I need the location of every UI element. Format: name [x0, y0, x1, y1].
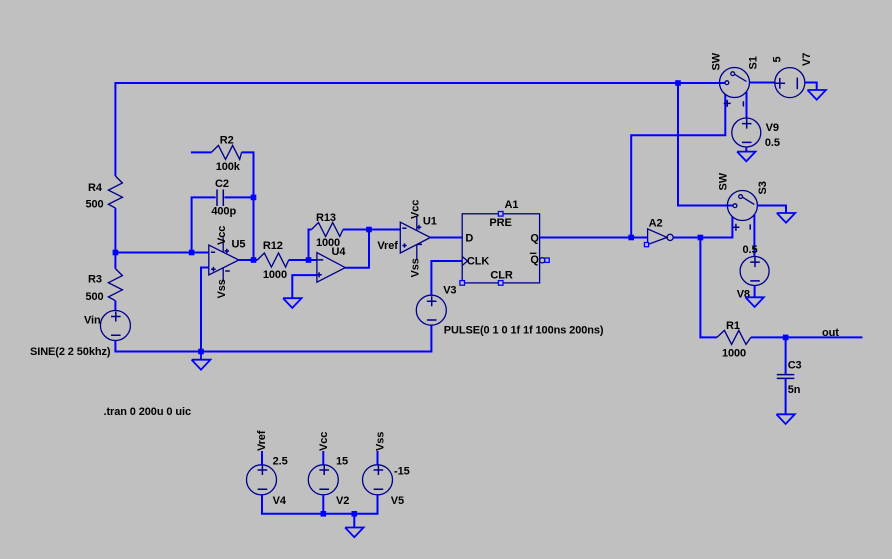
svg-text:SW: SW: [711, 52, 723, 70]
svg-text:0.5: 0.5: [765, 137, 780, 149]
ground V8: [745, 297, 763, 307]
svg-text:V4: V4: [273, 495, 287, 507]
ground supply rail: [345, 528, 363, 538]
voltage source V3: [416, 295, 446, 325]
svg-text:V3: V3: [443, 284, 456, 296]
svg-text:Vss: Vss: [216, 279, 228, 298]
voltage source V2: [308, 465, 338, 495]
pin A2 com square: [644, 243, 648, 247]
svg-text:500: 500: [86, 291, 104, 303]
svg-text:Vref: Vref: [256, 430, 268, 451]
pin Qbar square: [545, 258, 549, 262]
op-amp U4: [317, 253, 345, 283]
svg-text:.tran 0 200u 0 uic: .tran 0 200u 0 uic: [104, 406, 191, 418]
svg-text:A1: A1: [505, 199, 519, 211]
svg-text:Vref: Vref: [377, 240, 398, 252]
voltage source V4: [247, 465, 277, 495]
node out junction: [783, 335, 789, 341]
node Q junction: [628, 235, 634, 241]
node U4 minus junction: [306, 257, 312, 263]
svg-text:U5: U5: [232, 238, 246, 250]
wire U5 plus to ground rail: [201, 268, 209, 352]
resistor R1: [717, 330, 751, 344]
wire R13 feedback left: [309, 230, 312, 261]
wire V3 to CLK: [431, 261, 462, 296]
wire S1 to V7: [750, 82, 775, 84]
svg-text:V7: V7: [801, 53, 813, 66]
pin clock wedge: [462, 257, 467, 266]
node bottom rail ground junction: [198, 349, 204, 355]
node C2 right junction: [251, 195, 257, 201]
svg-text:S3: S3: [757, 181, 769, 194]
wire S3 minus control to V8: [753, 215, 755, 257]
wire ground stub: [353, 514, 355, 528]
wire R1 to out node: [751, 336, 863, 338]
svg-text:V5: V5: [391, 495, 404, 507]
voltage source V5: [363, 465, 393, 495]
svg-text:V8: V8: [737, 289, 750, 301]
svg-text:Vss: Vss: [410, 258, 422, 277]
resistor R13: [312, 223, 344, 237]
svg-text:1000: 1000: [263, 269, 287, 281]
svg-text:Vss: Vss: [375, 432, 387, 451]
svg-text:R4: R4: [88, 182, 103, 194]
svg-text:R1: R1: [726, 320, 740, 332]
wire supply bottom rail: [262, 495, 378, 514]
svg-text:V9: V9: [766, 122, 779, 134]
svg-text:out: out: [822, 327, 839, 339]
wire R4 to R3: [114, 208, 116, 269]
wire junction to U5 minus: [115, 252, 208, 254]
pin PRE square: [498, 212, 503, 217]
switch S1: [720, 68, 750, 98]
svg-text:CLR: CLR: [490, 269, 512, 281]
svg-text:5n: 5n: [788, 384, 801, 396]
switch S3: [727, 191, 757, 221]
ground U4 plus: [283, 298, 301, 308]
svg-text:R12: R12: [263, 240, 283, 252]
svg-text:U4: U4: [332, 246, 347, 258]
svg-text:Vcc: Vcc: [410, 200, 422, 219]
wire S3 left drop: [678, 83, 733, 206]
wire R12 to U4 minus: [289, 259, 317, 261]
pin corner square: [460, 281, 465, 286]
ground C3: [776, 414, 794, 424]
ground bottom rail: [192, 352, 211, 370]
wire S3 right to ground: [757, 206, 786, 214]
wire R13 right to junction: [343, 229, 400, 231]
svg-text:15: 15: [336, 455, 348, 467]
resistor R12: [257, 253, 288, 267]
svg-text:SW: SW: [718, 172, 730, 190]
node U5 output junction: [251, 257, 257, 263]
wire V2 stub: [322, 495, 324, 514]
svg-text:500: 500: [86, 199, 104, 211]
wire A2 output: [673, 217, 732, 238]
voltage source V7: [775, 68, 805, 98]
inverter A2: [648, 229, 667, 245]
node U4 output junction: [366, 227, 372, 233]
wire S1 minus control to V9: [746, 92, 748, 118]
node C2 left junction: [189, 250, 195, 256]
svg-text:CLK: CLK: [467, 255, 489, 267]
node A2 output junction: [698, 235, 704, 241]
wire U1 output to flip-flop D: [430, 237, 462, 239]
wire top rail: [115, 83, 725, 176]
svg-text:Q: Q: [530, 254, 539, 266]
wire Vin to bottom rail: [115, 325, 431, 352]
svg-text:C3: C3: [788, 360, 802, 372]
svg-text:100k: 100k: [216, 161, 241, 173]
wire V8 to ground: [754, 286, 756, 298]
svg-text:Q: Q: [530, 232, 539, 244]
flip-flop A1: [462, 214, 539, 283]
resistor R2: [191, 151, 212, 153]
svg-text:-15: -15: [394, 466, 410, 478]
svg-text:SINE(2 2 50khz): SINE(2 2 50khz): [30, 346, 111, 358]
node ground junction: [352, 511, 358, 517]
svg-text:400p: 400p: [211, 206, 236, 218]
wire Q output to A2: [540, 237, 648, 239]
svg-text:R3: R3: [88, 274, 102, 286]
wire U4 plus to ground: [292, 275, 317, 298]
wire U5 output: [239, 259, 257, 261]
wire R3 to Vin: [114, 301, 116, 311]
resistor R3: [108, 269, 122, 301]
wire V7 to ground: [805, 83, 817, 91]
ground V7: [808, 90, 826, 100]
svg-text:Vcc: Vcc: [318, 432, 330, 451]
svg-text:PULSE(0 1 0 1f 1f 100ns 200ns): PULSE(0 1 0 1f 1f 100ns 200ns): [444, 325, 604, 337]
svg-text:2.5: 2.5: [273, 455, 288, 467]
pin CLR square: [498, 281, 503, 286]
pin Qbar bubble: [540, 258, 545, 263]
capacitor C3: [785, 337, 787, 374]
svg-text:D: D: [465, 232, 473, 244]
resistor R4: [108, 176, 122, 208]
svg-text:5: 5: [772, 56, 784, 62]
voltage source Vin: [100, 311, 130, 341]
ground V9: [737, 152, 755, 162]
svg-text:C2: C2: [215, 178, 229, 190]
voltage source V8: [740, 257, 769, 286]
svg-text:PRE: PRE: [489, 217, 511, 229]
wire A2 junction down to R1: [700, 238, 717, 338]
wire Q to S1 control: [631, 94, 725, 238]
node mid-left junction: [113, 250, 119, 256]
svg-text:V2: V2: [336, 495, 349, 507]
voltage source V9: [732, 118, 761, 147]
node junction top rail to S3: [675, 80, 681, 86]
svg-text:1000: 1000: [722, 347, 746, 359]
svg-text:Vcc: Vcc: [216, 226, 228, 245]
op-amp U1: [400, 222, 430, 253]
svg-text:0.5: 0.5: [743, 244, 758, 256]
wire R2 right to output column: [242, 152, 254, 260]
svg-text:R13: R13: [316, 212, 336, 224]
svg-text:Vin: Vin: [84, 315, 101, 327]
svg-text:S1: S1: [748, 56, 760, 69]
wire V9 to ground: [745, 147, 747, 152]
svg-text:U1: U1: [423, 216, 437, 228]
op-amp U5: [209, 245, 239, 275]
svg-text:R2: R2: [220, 134, 234, 146]
svg-text:A2: A2: [649, 218, 663, 230]
capacitor C2: [192, 197, 216, 252]
wire U4 output up: [345, 230, 369, 268]
node V2 junction: [321, 511, 327, 517]
ground S3: [777, 213, 795, 223]
